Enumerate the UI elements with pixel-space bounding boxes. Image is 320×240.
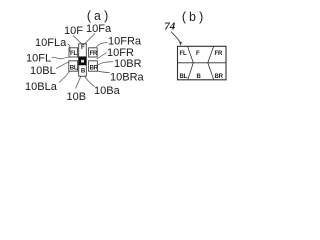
svg-text:10BL: 10BL bbox=[30, 65, 56, 77]
svg-text:10BLa: 10BLa bbox=[25, 81, 58, 93]
svg-text:10FRa: 10FRa bbox=[108, 36, 142, 48]
svg-text:FR: FR bbox=[215, 51, 223, 57]
svg-text:10Fa: 10Fa bbox=[86, 23, 112, 35]
svg-text:10BR: 10BR bbox=[114, 58, 142, 70]
svg-text:10Ba: 10Ba bbox=[94, 85, 121, 97]
svg-text:(b): (b) bbox=[181, 11, 206, 25]
svg-text:FL: FL bbox=[180, 51, 187, 57]
svg-text:BL: BL bbox=[180, 74, 188, 80]
svg-text:10F: 10F bbox=[64, 25, 83, 37]
svg-text:BR: BR bbox=[215, 74, 224, 80]
svg-text:BL: BL bbox=[70, 65, 78, 71]
svg-text:FR: FR bbox=[90, 51, 98, 57]
svg-text:FL: FL bbox=[70, 51, 77, 57]
svg-text:BR: BR bbox=[90, 65, 99, 71]
svg-text:F: F bbox=[81, 45, 85, 51]
svg-text:(a): (a) bbox=[86, 10, 111, 24]
svg-text:B: B bbox=[81, 68, 86, 74]
svg-text:10B: 10B bbox=[67, 91, 87, 103]
svg-text:10FL: 10FL bbox=[26, 53, 51, 65]
svg-text:10BRa: 10BRa bbox=[110, 72, 145, 84]
svg-text:10FLa: 10FLa bbox=[35, 37, 67, 49]
svg-text:F: F bbox=[196, 51, 200, 57]
svg-text:74: 74 bbox=[164, 21, 176, 33]
